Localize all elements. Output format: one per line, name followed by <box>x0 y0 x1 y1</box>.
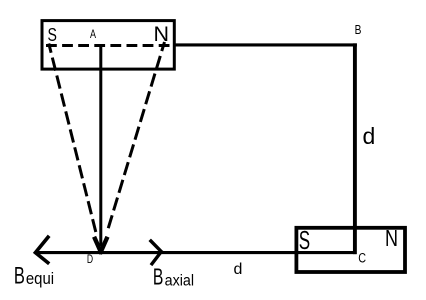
svg-text:S: S <box>48 24 57 45</box>
svg-text:N: N <box>154 22 170 46</box>
svg-text:B: B <box>153 263 164 289</box>
svg-text:axial: axial <box>165 272 195 289</box>
svg-text:equi: equi <box>26 269 54 288</box>
B_equi arrowhead (left) <box>35 237 48 262</box>
horizontal line through D to C <box>35 251 356 254</box>
dashed line S-pole to D <box>49 44 96 233</box>
B_axial arrowhead (right) <box>151 241 161 264</box>
svg-text:d: d <box>234 261 243 278</box>
svg-text:d: d <box>363 123 376 149</box>
svg-text:B: B <box>355 23 362 37</box>
svg-text:C: C <box>358 251 366 266</box>
magnet 2 bar (bottom right) <box>296 228 405 272</box>
wire from B down to magnet 2 (distance d) <box>353 43 357 254</box>
dashed axis line through magnet 1 <box>46 44 174 47</box>
svg-text:S: S <box>299 227 310 255</box>
dashed line N-pole to D <box>107 42 164 232</box>
svg-text:B: B <box>14 262 25 289</box>
arrowhead at D (down) <box>95 239 107 252</box>
magnet 1 bar (top left) <box>42 21 174 70</box>
svg-text:N: N <box>385 225 398 251</box>
vertical line from A to D <box>99 46 102 246</box>
svg-text:D: D <box>87 252 93 266</box>
wire from N pole to corner B <box>174 43 357 46</box>
svg-text:A: A <box>90 27 96 41</box>
